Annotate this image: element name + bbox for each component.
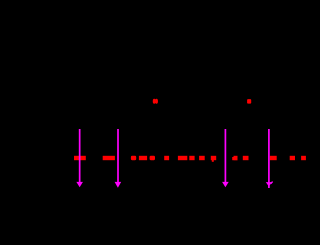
red marker dot 1 bbox=[153, 99, 158, 104]
dash segment 15 (dot) bbox=[301, 156, 306, 160]
dash segment 13 (starts at arrow 4) bbox=[270, 156, 277, 160]
dash segment 11 (dot, stepped top-left corner) bbox=[232, 156, 237, 160]
dash segment 12 (dot) bbox=[243, 156, 249, 160]
dash segment 3 (dot) bbox=[131, 156, 136, 160]
dash segment 9 (dot) bbox=[199, 156, 205, 160]
dash segment 14 (dot) bbox=[290, 156, 295, 160]
dash segment 2 bbox=[103, 156, 115, 160]
dash segment 7 bbox=[178, 156, 187, 160]
arrow 2 (magenta, down) bbox=[115, 129, 122, 188]
dash segment 4 bbox=[139, 156, 147, 160]
dash segment 6 (dot) bbox=[164, 156, 169, 160]
arrow 1 (magenta, down) bbox=[76, 129, 83, 187]
arrow 3 (magenta, down) bbox=[222, 129, 229, 187]
dash segment 10 (dot with small tail below) bbox=[211, 156, 216, 162]
arrow 4 (magenta, down, barbed head) bbox=[266, 129, 273, 188]
red marker dot 2 bbox=[247, 99, 251, 104]
dash segment 8 (dot) bbox=[189, 156, 194, 160]
red dashed level line: dash segment 1 (crosses arrow 1) bbox=[74, 156, 86, 160]
dash segment 5 (dot) bbox=[150, 156, 155, 160]
